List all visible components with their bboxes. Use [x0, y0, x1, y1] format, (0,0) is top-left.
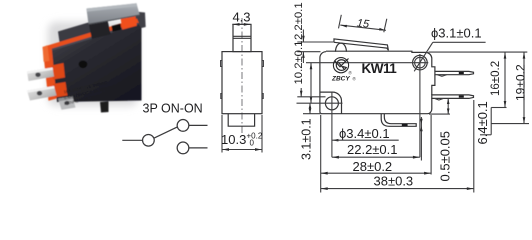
ext line lever top left — [297, 41, 334, 43]
dim 2.2 lower tail — [302, 52, 304, 63]
photo cover top edge highlight — [52, 23, 139, 51]
terminal lower root notch — [434, 98, 443, 100]
svg-text:KW11: KW11 — [362, 61, 398, 76]
svg-text:19±0.2: 19±0.2 — [514, 64, 528, 101]
mounting hole lower-left centerline h — [297, 102, 343, 104]
photo right end block — [135, 12, 146, 30]
dim 15 ext left — [339, 15, 342, 29]
dim 10.3 line — [222, 149, 262, 151]
terminal upper root notch — [437, 75, 446, 77]
svg-text:28±0.2: 28±0.2 — [353, 159, 393, 174]
photo orange slab shade — [43, 45, 50, 62]
plunger — [233, 24, 251, 51]
ext 28 right — [430, 115, 432, 175]
dim 3.1 bottom arrow — [309, 108, 312, 113]
photo terminal 1 edge — [27, 68, 53, 74]
photo terminal blade 1 — [27, 68, 54, 82]
dim 38 left arrow — [321, 187, 328, 190]
photo dark slot under lever — [112, 24, 122, 32]
leader phi3.1 — [414, 42, 433, 71]
photo body round hole — [79, 61, 88, 69]
side view drawing (middle) — [221, 10, 264, 153]
label phi3.1 underline — [433, 41, 486, 43]
svg-text:6.4±0.1: 6.4±0.1 — [475, 101, 490, 144]
dim 15 line — [340, 25, 386, 30]
photo black cover front face — [52, 23, 142, 102]
dim 16 bottom arrow — [504, 101, 507, 108]
terminal common bottom outer — [381, 114, 416, 127]
terminal blade lower-right — [432, 95, 474, 99]
dim 38 line — [321, 188, 474, 190]
svg-text:2.2±0.1: 2.2±0.1 — [293, 2, 305, 40]
photo plunger block — [89, 20, 111, 39]
common lead wire — [122, 139, 142, 141]
dim 15 ext right — [384, 19, 387, 32]
svg-text:10.3: 10.3 — [221, 132, 246, 147]
photo soft shadow — [48, 22, 138, 106]
dim 19 top arrow — [523, 52, 526, 59]
svg-text:10.2±0.1: 10.2±0.1 — [293, 41, 305, 85]
photo orange terminal base 2 — [53, 82, 68, 98]
hole boss bottom-left — [320, 92, 342, 114]
dim 16 top arrow — [504, 52, 507, 59]
dim 19 bottom connector — [491, 123, 529, 125]
dim 4.3 right arrow — [244, 23, 251, 26]
hinge boss arch — [336, 43, 347, 52]
dim 10.3 right arrow — [255, 148, 262, 151]
photo lever top face light — [86, 3, 137, 11]
dim 3.1 top arrow — [309, 103, 312, 108]
dim 28 right arrow — [424, 172, 431, 175]
photo terminal 3 hole — [65, 101, 70, 105]
dim 16 bottom connector — [491, 107, 506, 109]
svg-text:16±0.2: 16±0.2 — [490, 61, 502, 96]
photo lever bottom dark strip — [88, 15, 139, 25]
svg-text:ϕ3.1±0.1: ϕ3.1±0.1 — [431, 26, 482, 41]
ext top right long — [429, 51, 528, 53]
ext 38 right — [473, 100, 475, 193]
photo terminal blade 2 — [27, 86, 57, 101]
dim 6.4 bottom arrow — [447, 109, 450, 115]
dim 3.1 line — [309, 103, 311, 114]
centerline — [241, 18, 243, 136]
photo terminal 3 shade — [58, 96, 73, 101]
hole top-right centerline h — [306, 62, 428, 64]
svg-text:3P ON-ON: 3P ON-ON — [143, 101, 203, 115]
terminal upper hole mark — [459, 72, 464, 74]
photo lever arm face — [86, 3, 139, 25]
photo: product photograph of micro switch — [27, 3, 146, 112]
ext line left for 10.3 — [221, 115, 223, 153]
label phi3.4 underline — [338, 139, 399, 141]
svg-text:0: 0 — [250, 139, 255, 148]
dim 0.5 line — [420, 117, 422, 161]
left notch lower — [221, 94, 222, 99]
dim 16 line — [504, 52, 506, 107]
dim 10.2 top arrow — [310, 63, 313, 69]
hole top-right centerline v — [419, 54, 421, 157]
dim 10.3 left arrow — [222, 148, 229, 151]
brand logo swirl — [335, 59, 349, 71]
lever arm — [334, 39, 388, 50]
stair vertical — [490, 108, 492, 135]
common contact circle — [143, 134, 155, 146]
svg-text:ZBCY: ZBCY — [331, 76, 350, 83]
dim 2.2 upper arrow — [302, 36, 305, 42]
svg-text:0.5±0.05: 0.5±0.05 — [438, 131, 453, 182]
plunger groove line 2 — [233, 37, 251, 39]
svg-text:15: 15 — [356, 17, 370, 30]
ext 28 left — [320, 115, 322, 193]
circuit symbol 3P ON-ON — [122, 101, 207, 153]
dim 4.3 left arrow — [233, 23, 240, 26]
bottom boss — [228, 114, 254, 127]
dim 15 right arrow — [379, 28, 386, 31]
dim 22.2 left arrow — [332, 156, 339, 159]
dim 2.2 upper tail — [302, 30, 304, 43]
dim 6.4 line — [447, 98, 449, 114]
mounting hole top-right inner — [415, 57, 426, 68]
dim 0.5 top arrow — [420, 119, 423, 124]
switch pole arm — [154, 127, 177, 138]
ext line hole top tangent — [297, 96, 325, 98]
photo printed ratings text — [61, 77, 123, 106]
dim 19 bottom arrow — [523, 117, 526, 124]
mounting hole lower-left centerline v — [331, 93, 333, 158]
svg-text:4.3: 4.3 — [232, 10, 250, 25]
stair bottom horizontal — [480, 134, 491, 136]
svg-text:38±0.3: 38±0.3 — [374, 173, 414, 188]
svg-text:3.1±0.1: 3.1±0.1 — [300, 118, 314, 160]
NC lead wire — [189, 147, 208, 149]
front view dimensioned drawing (right) — [293, 2, 529, 192]
body rectangle — [222, 52, 262, 114]
dim 22.2 line — [332, 156, 420, 158]
label phi3.4 underline tail — [332, 139, 338, 141]
stub arrow hole tangent — [300, 88, 302, 97]
NC contact circle — [177, 142, 189, 154]
terminal blade upper-right — [435, 71, 474, 74]
dim 22.2 right arrow — [413, 156, 420, 159]
label phi3.4 arrow — [332, 139, 339, 142]
photo terminal 2 edge — [27, 86, 55, 93]
dim 10.2 bottom arrow — [310, 97, 313, 104]
photo orange base band and left slab — [43, 19, 139, 101]
dim 2.2 lower arrow — [302, 52, 305, 58]
right notch lower — [262, 94, 263, 99]
NO lead wire — [189, 124, 208, 126]
dim 28 line — [321, 172, 431, 174]
photo terminal blade 3 — [58, 96, 76, 110]
ext line body top left — [297, 51, 320, 53]
svg-text:ϕ3.4±0.1: ϕ3.4±0.1 — [339, 126, 390, 141]
mounting hole top-right outer — [413, 55, 428, 70]
photo terminal 1 hole — [35, 73, 40, 78]
dim 38 right arrow — [467, 187, 474, 190]
dim 6.4 top arrow — [447, 98, 450, 104]
photo orange button — [121, 14, 137, 30]
photo dark mass under lever and right end block — [58, 22, 93, 49]
plunger groove line — [233, 35, 251, 37]
left notch — [221, 61, 222, 67]
ext body bottom left — [303, 113, 320, 115]
brand logo circle — [333, 58, 348, 73]
dim 15 left arrow — [341, 25, 348, 28]
right notch — [262, 61, 263, 67]
svg-text:22.2±0.1: 22.2±0.1 — [347, 142, 398, 157]
svg-text:®: ® — [353, 76, 357, 82]
photo bottom tab terminal — [100, 101, 109, 112]
mounting hole lower-left — [325, 97, 338, 110]
NO contact circle — [177, 120, 189, 132]
body outline — [320, 51, 435, 113]
dim 0.5 bottom arrow — [420, 126, 423, 131]
ext line right for 10.3 — [261, 115, 263, 153]
photo orange terminal base 1 — [52, 63, 66, 80]
terminal common hole mark — [402, 124, 408, 126]
photo terminal 2 hole — [37, 91, 42, 96]
dim 28 left arrow — [321, 172, 328, 175]
ext body bottom right — [429, 113, 450, 115]
stub arrow head — [300, 91, 303, 97]
dim 4.3 line — [232, 23, 250, 25]
terminal lower hole mark — [459, 96, 464, 98]
dim 10.2 line — [310, 63, 312, 103]
dim 19 line — [523, 52, 525, 124]
